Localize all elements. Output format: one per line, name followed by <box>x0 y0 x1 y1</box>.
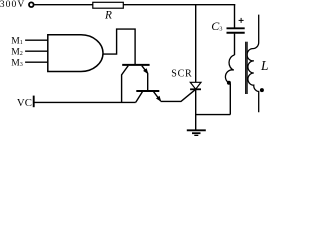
wire AND output <box>103 29 136 64</box>
transformer core <box>245 42 247 94</box>
wire Q1 emitter to Q2 base <box>147 73 149 90</box>
thyristor SCR triangle <box>190 82 201 89</box>
transistor Q1 emitter arrowhead <box>143 68 148 74</box>
inductor L primary winding <box>225 55 234 84</box>
resistor R <box>93 2 124 8</box>
wire VC line <box>34 101 136 103</box>
transistor Q2 collector lead <box>136 92 143 103</box>
transistor Q2 emitter lead <box>154 92 161 101</box>
capacitor C3 polarity plus <box>239 18 244 23</box>
inductor L secondary winding <box>247 15 259 113</box>
node secondary dot <box>260 88 264 92</box>
transistor Q1 emitter lead <box>142 66 148 74</box>
wire corner down to capacitor <box>234 5 236 28</box>
wire SCR anode riser <box>195 5 197 83</box>
svg-text:VC: VC <box>17 97 32 109</box>
svg-text:R: R <box>104 10 112 22</box>
ground <box>187 129 206 131</box>
gate U1 AND <box>48 35 103 72</box>
transistor Q1 collector lead <box>122 66 129 103</box>
wire top rail from terminal to resistor <box>34 4 92 6</box>
node VC terminal tick <box>33 96 35 108</box>
wire Q2 emitter to SCR gate <box>161 89 196 101</box>
node primary dot <box>227 81 231 85</box>
wire input M1 to AND <box>25 39 48 41</box>
wire input M3 to AND <box>25 61 48 63</box>
wire primary bottom lead <box>229 84 231 115</box>
transistor Q2 emitter arrowhead <box>156 96 161 102</box>
wire cathode junction to primary bottom <box>196 114 231 116</box>
wire input M2 to AND <box>25 50 48 52</box>
svg-text:L: L <box>260 58 268 73</box>
wire SCR cathode down to ground <box>195 89 197 130</box>
wire top rail from resistor to corner <box>123 4 235 6</box>
svg-text:SCR: SCR <box>171 69 192 80</box>
transistor Q2 base bar <box>136 90 159 92</box>
svg-text:300V: 300V <box>0 0 25 10</box>
node 300V terminal <box>29 2 34 7</box>
capacitor C3 plates <box>227 27 245 29</box>
thyristor SCR cathode bar <box>190 88 201 90</box>
wire capacitor to primary winding <box>234 34 236 55</box>
transistor Q1 base bar <box>122 64 149 66</box>
